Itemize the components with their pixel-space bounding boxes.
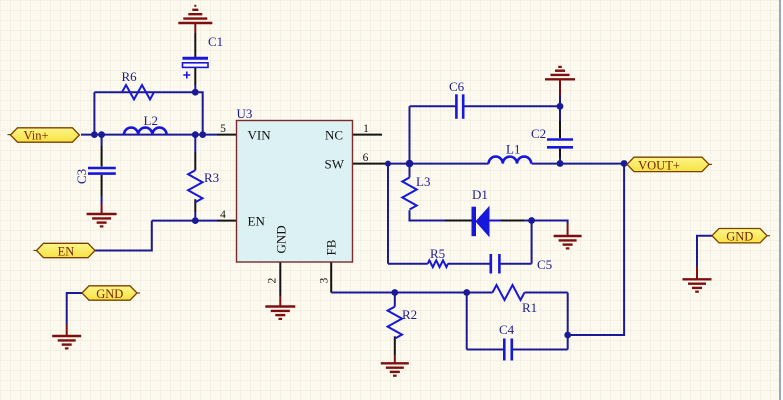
svg-text:VOUT+: VOUT+ bbox=[638, 158, 680, 172]
wire C6 top horizontal y=106.3 bbox=[410, 105, 561, 107]
junction R2 node bbox=[391, 289, 398, 296]
capacitor C1 (polarized) bbox=[183, 34, 224, 79]
wire C4 bottom horizontal y=349.5 bbox=[467, 349, 568, 351]
wire R1C4 left vertical bbox=[466, 293, 468, 350]
svg-text:C2: C2 bbox=[531, 126, 546, 141]
wire D1 node to ground bbox=[532, 221, 568, 236]
svg-text:R6: R6 bbox=[122, 69, 138, 84]
junction R1 left node bbox=[463, 289, 470, 296]
IC U3 box bbox=[237, 106, 353, 262]
resistor R3 bbox=[188, 170, 219, 202]
svg-text:GND: GND bbox=[726, 230, 753, 244]
junction Vin+ node bbox=[91, 131, 98, 138]
svg-text:GND: GND bbox=[96, 287, 123, 301]
ground at R2 bbox=[381, 363, 409, 375]
svg-text:3: 3 bbox=[319, 278, 331, 284]
svg-text:4: 4 bbox=[220, 209, 226, 221]
junction D1 anode node bbox=[528, 217, 535, 224]
capacitor C2 bbox=[531, 126, 573, 147]
svg-text:L3: L3 bbox=[416, 174, 430, 189]
wire C6 left vertical x=409.5 bbox=[409, 106, 411, 163]
resistor R5 bbox=[428, 246, 448, 267]
svg-text:NC: NC bbox=[325, 128, 343, 143]
junction R3 top node bbox=[192, 131, 199, 138]
wire R5 branch vertical x=388 bbox=[387, 164, 389, 264]
svg-text:SW: SW bbox=[325, 157, 345, 172]
svg-text:EN: EN bbox=[248, 214, 266, 229]
wire L3 bottom to D1 bbox=[410, 210, 472, 220]
wire L3 branch vertical x=409.5 bbox=[409, 164, 411, 178]
capacitor C5 bbox=[491, 254, 552, 274]
ground at C2 top bbox=[545, 67, 575, 79]
svg-text:2: 2 bbox=[267, 278, 279, 284]
capacitor C4 bbox=[499, 322, 515, 361]
svg-text:R1: R1 bbox=[522, 300, 537, 315]
wire D1 anode to node bbox=[489, 220, 532, 222]
sheet right edge bbox=[779, 0, 781, 400]
svg-text:6: 6 bbox=[363, 152, 369, 164]
svg-text:C5: C5 bbox=[537, 257, 552, 272]
capacitor C3 bbox=[74, 168, 116, 184]
wire VOUT net horizontal y=163.5 bbox=[532, 163, 625, 165]
junction feedback node bbox=[564, 332, 571, 339]
ground at C1 top bbox=[178, 6, 212, 23]
port EN bbox=[34, 243, 96, 258]
port VOUT+ bbox=[627, 157, 712, 172]
ground at U3 pin 2 bbox=[265, 307, 295, 319]
inductor L3 (zigzag style) bbox=[402, 174, 430, 210]
svg-text:C4: C4 bbox=[499, 322, 515, 337]
diode D1 bbox=[472, 187, 490, 236]
svg-text:D1: D1 bbox=[472, 187, 488, 202]
port GND right bbox=[712, 229, 770, 244]
wire EN flag run bbox=[95, 221, 152, 251]
junction VOUT flag node bbox=[621, 160, 628, 167]
svg-text:R5: R5 bbox=[430, 246, 445, 261]
junction SW R5 node bbox=[385, 161, 391, 167]
pin 3 FB stub bbox=[330, 262, 332, 293]
svg-text:VIN: VIN bbox=[248, 128, 272, 143]
wire FB net horizontal y=292.5 bbox=[331, 292, 467, 294]
wire C1 vertical bbox=[194, 24, 196, 92]
wire VIN net horizontal y=134.6 bbox=[81, 134, 237, 136]
resistor R6 bbox=[122, 69, 155, 99]
wire R6 top horizontal y=92.2 bbox=[94, 91, 195, 93]
svg-text:Vin+: Vin+ bbox=[23, 129, 48, 143]
ground at right GND flag bbox=[683, 279, 712, 291]
pin 1 NC stub bbox=[353, 134, 382, 136]
svg-text:C3: C3 bbox=[74, 169, 89, 184]
junction C1 jog node bbox=[199, 131, 206, 138]
wire C1 jog to VIN line bbox=[195, 92, 202, 134]
svg-text:C6: C6 bbox=[449, 79, 465, 94]
junction R6-C1 node bbox=[192, 89, 199, 96]
wire feedback to VOUT vertical x=624.1 bbox=[568, 164, 624, 336]
wire R5 horizontal y=263.7 bbox=[388, 263, 532, 265]
inductor L1 bbox=[489, 142, 532, 164]
ground at C3 bbox=[87, 214, 117, 226]
svg-text:L2: L2 bbox=[144, 113, 158, 128]
wire R1 top segment bbox=[467, 292, 568, 294]
wire R3 vertical bbox=[194, 135, 196, 221]
svg-text:C1: C1 bbox=[208, 34, 223, 49]
wire C2 top ground stem bbox=[559, 80, 561, 106]
ground at left GND flag bbox=[52, 336, 81, 348]
junction EN node bbox=[192, 217, 199, 224]
svg-text:R3: R3 bbox=[204, 170, 219, 185]
wire SW net horizontal y=163.6 bbox=[353, 163, 489, 165]
junction C3 node bbox=[98, 131, 105, 138]
wire C5 to D1 node vertical bbox=[531, 221, 533, 264]
pin 2 GND stub bbox=[279, 262, 281, 306]
capacitor C6 bbox=[449, 79, 465, 119]
svg-text:1: 1 bbox=[363, 123, 369, 135]
wire C3 branch vertical bbox=[101, 135, 103, 213]
port Vin+ bbox=[8, 128, 80, 143]
resistor R1 bbox=[493, 285, 538, 315]
junction SW L3 node bbox=[406, 160, 414, 168]
wire right GND flag run bbox=[697, 236, 712, 279]
wire VOUT to flag bbox=[624, 163, 627, 165]
junction C2 VOUT node bbox=[557, 160, 564, 167]
inductor L2 bbox=[124, 113, 167, 135]
resistor R2 bbox=[388, 307, 418, 339]
ground at D1 bbox=[554, 236, 582, 248]
wire R6 branch left vertical bbox=[93, 92, 95, 134]
wire C2 vertical bbox=[559, 106, 561, 163]
junction C6 ground node bbox=[557, 103, 564, 110]
svg-text:R2: R2 bbox=[402, 307, 417, 322]
wire EN net horizontal y=220.6 bbox=[152, 220, 237, 222]
wire R2 vertical bbox=[394, 293, 396, 363]
svg-text:GND: GND bbox=[274, 225, 289, 253]
port GND left bbox=[82, 286, 140, 301]
svg-text:FB: FB bbox=[324, 239, 339, 255]
svg-text:EN: EN bbox=[58, 244, 75, 258]
svg-text:5: 5 bbox=[220, 123, 226, 135]
wire R1C4 right vertical bbox=[567, 293, 569, 350]
wire left GND flag run bbox=[67, 293, 82, 335]
svg-text:U3: U3 bbox=[237, 106, 253, 121]
svg-text:L1: L1 bbox=[506, 142, 520, 157]
